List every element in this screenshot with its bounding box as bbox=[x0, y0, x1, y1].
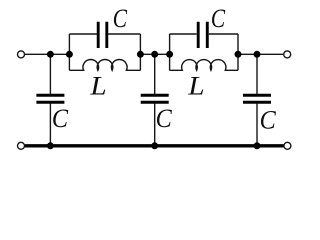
node: junction dot, tank 1 right bbox=[137, 51, 144, 58]
node: junction dot, shunt 3 top bbox=[254, 51, 261, 58]
svg-text:L: L bbox=[89, 71, 106, 100]
wire: tank 1 top branch to capacitor C1 bbox=[69, 33, 140, 35]
wire: shunt capacitor 2 top lead bbox=[154, 54, 156, 94]
capacitor C4 plates (shunt 2) bbox=[141, 95, 169, 102]
wire: tank 2 left vertical riser bbox=[169, 34, 171, 70]
wire: top rail, left segment bbox=[25, 53, 69, 55]
node: junction dot, shunt 1 top bbox=[47, 51, 54, 58]
node: junction dot, shunt 2 bottom bbox=[151, 142, 158, 149]
node: junction dot, tank 2 left bbox=[166, 51, 173, 58]
wire: tank 1 left vertical riser bbox=[68, 34, 70, 70]
svg-text:C: C bbox=[52, 105, 68, 133]
wire: shunt capacitor 1 top lead bbox=[49, 54, 51, 94]
wire: bottom ground rail (thick) bbox=[25, 144, 284, 147]
capacitor C3 plates (shunt 1) bbox=[36, 95, 64, 102]
wire: top rail, right segment bbox=[238, 53, 283, 55]
terminal: bottom-left open circle bbox=[18, 142, 25, 149]
node: junction dot, shunt 1 bottom bbox=[47, 142, 54, 149]
wire: tank 2 right vertical riser bbox=[237, 34, 239, 70]
svg-text:C: C bbox=[156, 105, 172, 133]
node: junction dot, shunt 3 bottom bbox=[254, 142, 261, 149]
svg-text:C: C bbox=[260, 107, 276, 135]
wire: top rail, middle segment bbox=[140, 53, 169, 55]
wire: shunt capacitor 3 bottom lead bbox=[256, 104, 258, 146]
svg-text:C: C bbox=[211, 5, 226, 33]
capacitor C5 plates (shunt 3) bbox=[243, 95, 271, 102]
inductor L2 (tank 2 bottom branch) bbox=[170, 60, 238, 71]
wire: shunt capacitor 3 top lead bbox=[256, 54, 258, 94]
node: junction dot, tank 2 right bbox=[235, 51, 242, 58]
capacitor C1 plates (series, tank 1) bbox=[98, 22, 107, 48]
capacitor C2 plates (series, tank 2) bbox=[198, 22, 207, 48]
svg-text:L: L bbox=[187, 71, 204, 100]
node: junction dot, shunt 2 top bbox=[151, 51, 158, 58]
inductor L1 (tank 1 bottom branch) bbox=[69, 59, 140, 70]
wire: tank 2 top branch to capacitor C2 bbox=[170, 33, 238, 35]
wire: shunt capacitor 1 bottom lead bbox=[49, 104, 51, 146]
wire: tank 1 right vertical riser bbox=[139, 34, 141, 70]
terminal: top-right open circle bbox=[284, 51, 291, 58]
terminal: top-left open circle bbox=[18, 51, 25, 58]
node: junction dot, tank 1 left bbox=[66, 51, 73, 58]
svg-text:C: C bbox=[113, 5, 128, 33]
wire: shunt capacitor 2 bottom lead bbox=[154, 104, 156, 146]
terminal: bottom-right open circle bbox=[284, 142, 291, 149]
